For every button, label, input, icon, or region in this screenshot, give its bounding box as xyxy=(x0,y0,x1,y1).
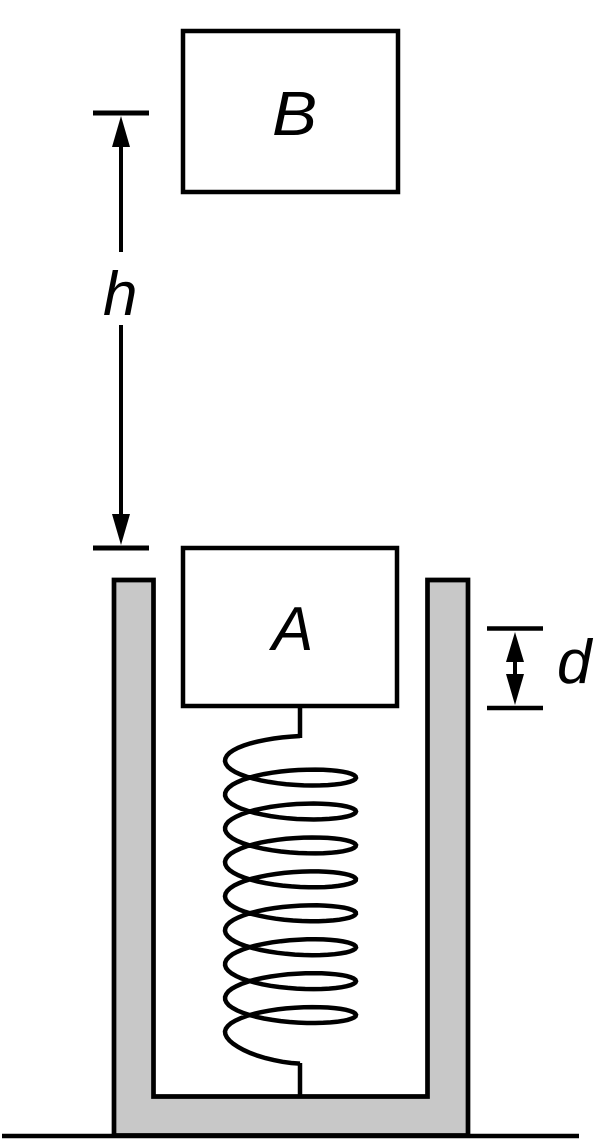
h dimension: bottom tick xyxy=(93,546,149,551)
spring coil xyxy=(225,736,356,1064)
d dimension: top tick xyxy=(487,626,543,631)
box A xyxy=(183,548,397,706)
h arrow upper arrowhead xyxy=(112,116,130,147)
d arrow down arrowhead xyxy=(506,674,524,705)
container (gray U-shaped vessel) xyxy=(114,580,468,1136)
d dimension: bottom tick xyxy=(487,706,543,711)
h arrow lower arrowhead xyxy=(112,514,130,545)
label A xyxy=(272,599,313,661)
label h xyxy=(103,264,137,326)
spring bottom rod xyxy=(298,1063,303,1097)
h arrow upper segment xyxy=(119,147,123,252)
box B xyxy=(183,31,398,192)
spring top rod xyxy=(298,707,303,738)
h arrow lower segment xyxy=(119,325,123,514)
label B xyxy=(272,84,317,146)
h dimension: top tick xyxy=(93,111,149,116)
label d xyxy=(557,632,591,694)
d arrow up arrowhead xyxy=(506,632,524,662)
d arrow middle segment xyxy=(513,660,517,676)
ground line xyxy=(2,1134,579,1139)
